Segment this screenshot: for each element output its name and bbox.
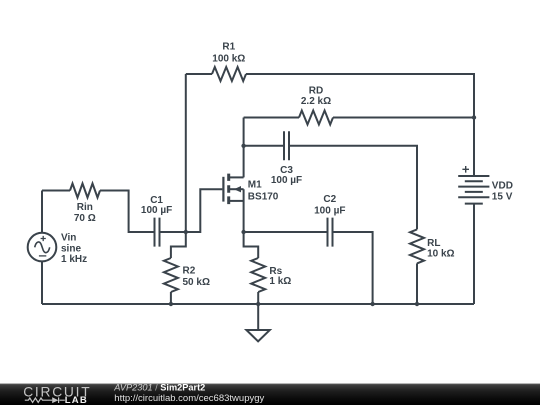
- svg-text:sine: sine: [61, 243, 81, 254]
- capacitor C1: [155, 218, 160, 247]
- wire: R1 top left: [186, 73, 212, 75]
- wire: node A to gate: [186, 189, 223, 232]
- wire: drain to RD: [243, 118, 245, 178]
- wire: battery top lead: [473, 118, 475, 177]
- wire: battery bottom lead: [473, 204, 475, 304]
- ground lead: [257, 304, 259, 330]
- wire: Rs jog: [244, 232, 259, 258]
- footer logo diode triangle: [52, 397, 58, 403]
- resistor R2: [164, 258, 178, 292]
- voltage source Vin plus: [41, 236, 46, 241]
- wire: source vertical: [243, 189, 245, 232]
- transistor M1 body lead: [230, 188, 244, 190]
- svg-text:RL: RL: [427, 238, 440, 249]
- battery VDD plus: [462, 166, 469, 173]
- svg-text:Vin: Vin: [61, 233, 76, 244]
- wire: RD left: [244, 117, 299, 119]
- wire: C1 to node A: [161, 231, 186, 233]
- junction node drain/C3: [241, 144, 245, 148]
- svg-text:Rin: Rin: [77, 202, 93, 213]
- svg-text:100 µF: 100 µF: [314, 205, 345, 216]
- svg-text:2.2 kΩ: 2.2 kΩ: [301, 96, 331, 107]
- transistor M1 channel segments: [227, 174, 230, 205]
- wire: RL to rail: [416, 263, 418, 304]
- svg-text:70 Ω: 70 Ω: [74, 213, 96, 224]
- svg-text:BS170: BS170: [248, 191, 279, 202]
- wire: source to C2: [244, 231, 327, 233]
- svg-text:C2: C2: [323, 194, 336, 205]
- junction node source: [241, 230, 245, 234]
- svg-text:100 µF: 100 µF: [141, 205, 172, 216]
- svg-text:M1: M1: [248, 180, 262, 191]
- svg-text:RD: RD: [309, 86, 323, 97]
- junction node rail R2: [169, 302, 173, 306]
- svg-text:50 kΩ: 50 kΩ: [183, 277, 210, 288]
- resistor RD: [299, 111, 333, 125]
- svg-text:100 kΩ: 100 kΩ: [212, 54, 245, 65]
- wire: C2 right drop: [334, 232, 373, 304]
- battery VDD plates: [458, 176, 489, 204]
- footer bar: [0, 384, 540, 405]
- svg-text:R2: R2: [183, 266, 196, 277]
- wire: Rs to rail: [257, 292, 259, 304]
- wire: R1 left leg: [185, 74, 187, 232]
- resistor RL: [410, 229, 424, 263]
- junction node rail RL: [415, 302, 419, 306]
- voltage source Vin circle: [28, 233, 57, 262]
- transistor M1 source lead: [230, 200, 244, 202]
- svg-text:VDD: VDD: [492, 181, 513, 192]
- wire: bottom rail: [42, 303, 474, 305]
- junction node rail C2: [370, 302, 374, 306]
- svg-text:100 µF: 100 µF: [271, 175, 302, 186]
- resistor Rs: [251, 258, 265, 292]
- voltage source Vin minus: [39, 255, 46, 257]
- wire: C3 left: [244, 145, 283, 147]
- wire: R2 jog: [171, 232, 186, 258]
- wire: Vin top lead: [41, 191, 43, 234]
- svg-text:R1: R1: [222, 42, 235, 53]
- capacitor C2: [328, 218, 333, 247]
- transistor M1 body arrow: [234, 186, 241, 192]
- transistor M1 gate bar: [222, 177, 224, 202]
- svg-text:LAB: LAB: [65, 395, 88, 405]
- wire: Rin to C1: [100, 191, 155, 233]
- junction node A (gate node): [184, 230, 188, 234]
- wire: RD right: [333, 117, 474, 119]
- svg-text:10 kΩ: 10 kΩ: [427, 249, 454, 260]
- wire: R1 top right: [246, 74, 474, 118]
- svg-text:AVP2301 / Sim2Part2: AVP2301 / Sim2Part2: [113, 383, 205, 393]
- resistor R1: [212, 67, 246, 81]
- svg-text:http://circuitlab.com/cec683tw: http://circuitlab.com/cec683twupygy: [114, 393, 264, 404]
- ground symbol: [246, 330, 269, 341]
- wire: Vin bottom lead: [41, 261, 43, 304]
- wire: Vin to Rin: [42, 190, 70, 192]
- wire: C3 right to RL: [290, 146, 417, 230]
- junction node rail Rs: [256, 302, 260, 306]
- footer logo zigzag and diode: [25, 397, 65, 403]
- transistor M1 drain lead: [230, 176, 244, 178]
- voltage source Vin sine: [35, 242, 50, 253]
- svg-text:15 V: 15 V: [492, 192, 513, 203]
- wire: R2 to rail: [170, 292, 172, 304]
- svg-text:1 kHz: 1 kHz: [61, 254, 87, 265]
- svg-text:1 kΩ: 1 kΩ: [269, 276, 291, 287]
- resistor Rin: [70, 184, 100, 198]
- junction node VDD top: [472, 115, 476, 119]
- capacitor C3: [284, 131, 289, 160]
